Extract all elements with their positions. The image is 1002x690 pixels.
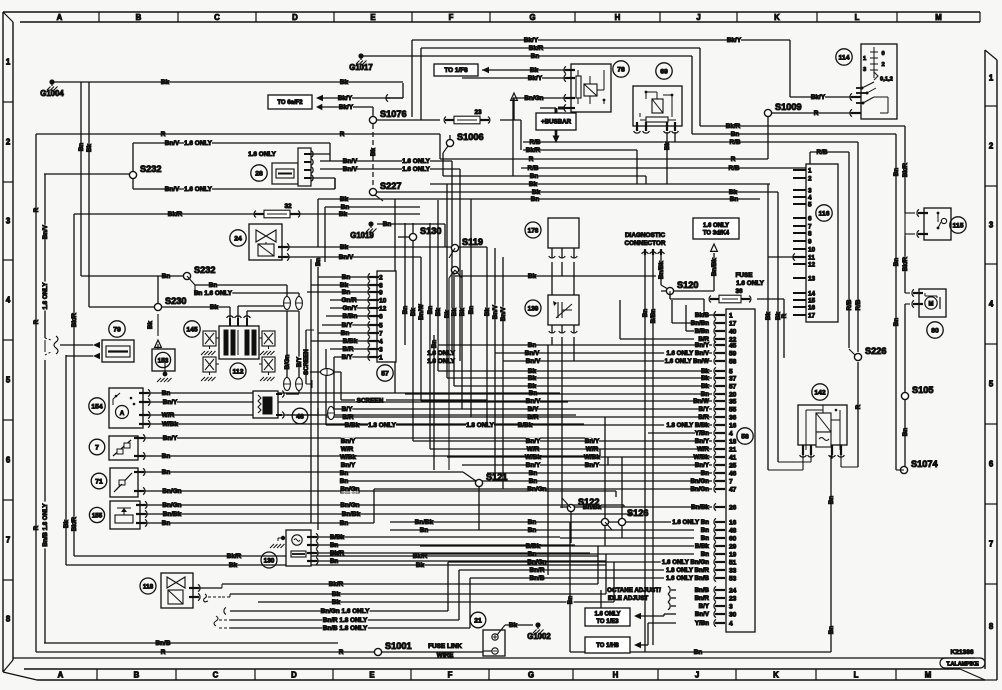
svg-text:Bk: Bk [528,383,537,390]
wire [44,360,46,643]
svg-text:R: R [161,131,166,138]
fuse 36 [709,296,711,303]
svg-text:13: 13 [808,275,816,282]
wire [645,176,647,184]
svg-text:139: 139 [528,305,539,312]
svg-text:Bn: Bn [315,258,322,266]
svg-text:Bk: Bk [86,143,93,151]
svg-text:Bn/Y: Bn/Y [695,342,710,349]
ground G1004 [49,79,54,84]
wire [671,300,673,323]
wire [148,392,560,394]
svg-text:Bn: Bn [162,390,171,397]
svg-text:Bk/R: Bk/R [329,581,344,588]
svg-text:W/Bk: W/Bk [525,454,541,461]
svg-text:Bn/V: Bn/V [42,224,49,239]
wire [604,417,606,518]
svg-text:Bn/V: Bn/V [343,166,358,173]
svg-text:Bk/R: Bk/R [413,553,428,560]
wire [88,82,90,307]
wire [340,480,712,482]
svg-text:7: 7 [6,536,10,545]
wire [36,133,440,135]
wire [647,623,649,645]
wire [620,338,694,340]
svg-text:Bn/B 1.8 ONLY: Bn/B 1.8 ONLY [42,503,49,547]
svg-text:B/Y: B/Y [342,354,353,361]
svg-text:Bn: Bn [828,496,835,504]
svg-text:Bk: Bk [332,591,341,598]
svg-text:B: B [136,13,142,22]
svg-text:6: 6 [379,313,383,320]
wire [133,188,335,190]
svg-text:Bk: Bk [530,67,539,74]
svg-text:1.6 ONLY: 1.6 ONLY [703,223,729,229]
wire [462,464,712,466]
wire [447,456,712,458]
wire [561,325,563,333]
wire [691,56,693,134]
svg-text:B/Y: B/Y [296,356,303,367]
svg-text:Bn: Bn [529,478,538,485]
wire [600,590,602,620]
wire [420,257,422,401]
svg-text:4: 4 [729,620,733,627]
svg-text:S119: S119 [462,237,483,247]
svg-text:OCTANE ADJUST/: OCTANE ADJUST/ [607,587,661,594]
svg-text:S226: S226 [865,346,886,356]
wire [661,290,714,292]
svg-text:+BUSBAR: +BUSBAR [541,119,572,126]
svg-text:Bk: Bk [509,622,518,629]
svg-text:46: 46 [729,470,737,477]
sensor U155 [110,501,140,529]
svg-text:C: C [213,671,219,680]
svg-text:1.6 ONLY: 1.6 ONLY [42,282,49,310]
throttle valve U24 [249,224,282,260]
svg-text:9: 9 [808,238,812,245]
svg-text:45: 45 [729,342,737,349]
wire [195,284,287,286]
battery U21 [470,612,486,628]
wire [482,69,565,71]
wire [340,372,342,400]
wire [44,174,46,338]
wire [809,152,811,168]
svg-text:K: K [774,13,780,22]
svg-text:17: 17 [729,320,737,327]
svg-text:8: 8 [808,230,812,237]
svg-text:Bn: Bn [701,391,709,398]
svg-text:Bn: Bn [694,649,703,656]
svg-text:Bk: Bk [410,307,417,315]
wire [305,330,307,384]
svg-text:1.6 ONLY: 1.6 ONLY [594,612,620,618]
svg-text:10: 10 [379,297,387,304]
svg-text:29: 29 [729,543,737,550]
left link symbols bottom rows [224,608,226,615]
svg-text:R: R [340,131,345,138]
wire [440,158,768,160]
svg-text:D: D [292,13,298,22]
svg-text:TO 1/E3: TO 1/E3 [596,619,619,625]
wire [377,119,440,121]
svg-text:130: 130 [264,557,275,564]
wire [317,267,319,530]
hook y98 [386,94,388,101]
svg-text:L: L [855,13,860,22]
wire [551,337,553,345]
svg-text:115: 115 [953,222,964,229]
wire [333,357,335,409]
wire [570,651,831,653]
svg-text:Bn: Bn [342,274,351,281]
svg-text:15: 15 [808,297,816,304]
svg-text:57: 57 [729,383,737,390]
svg-text:3: 3 [6,217,11,226]
svg-text:14: 14 [808,290,816,297]
svg-text:16: 16 [729,422,737,429]
wire [143,455,600,457]
wire [671,597,676,599]
svg-text:4: 4 [729,430,733,437]
wire 142 pin2 [810,455,812,462]
svg-text:16: 16 [808,304,816,311]
svg-text:Gn/Y: Gn/Y [343,305,359,312]
svg-text:Bn/V: Bn/V [492,304,499,319]
svg-text:12: 12 [379,305,387,312]
wire [412,39,790,41]
wire [230,619,459,621]
svg-text:Bk/R: Bk/R [726,123,741,130]
svg-text:Bk: Bk [528,375,537,382]
svg-text:R/B: R/B [728,165,739,172]
svg-text:153: 153 [158,357,169,364]
wire [298,293,300,306]
wire [430,183,770,185]
wire [230,627,470,629]
arrow to 3d/K4 [711,244,718,251]
wire [495,352,712,354]
svg-text:E: E [370,13,375,22]
wire [229,307,231,318]
svg-text:B/Bn: B/Bn [343,313,358,320]
wire [470,577,664,579]
svg-text:5: 5 [808,201,812,208]
oval B/Y [328,407,335,420]
svg-text:47: 47 [729,486,737,493]
wire [447,562,449,611]
svg-text:Bk: Bk [161,79,170,86]
svg-text:1.6 ONLY Bn/Gn: 1.6 ONLY Bn/Gn [662,559,709,566]
wire [311,340,370,342]
alternator U130 [286,530,311,566]
svg-text:Bn/R 1.8 ONLY: Bn/R 1.8 ONLY [323,617,368,624]
svg-text:TO 3d/K4: TO 3d/K4 [703,230,730,236]
wire S1076 to S227 [372,124,374,189]
svg-text:B/Y: B/Y [699,603,710,610]
svg-text:A: A [120,410,125,417]
svg-text:2: 2 [6,138,11,147]
svg-text:Bn: Bn [731,131,740,138]
svg-text:Bk/R: Bk/R [71,516,78,531]
svg-text:Bn: Bn [431,340,438,348]
svg-text:1.8 ONLY: 1.8 ONLY [368,422,397,429]
svg-text:Bn: Bn [893,258,900,266]
svg-text:1.6 ONLY Bn: 1.6 ONLY Bn [672,519,709,526]
svg-text:33: 33 [729,567,737,574]
svg-text:R/B: R/B [729,139,740,146]
svg-text:Bk: Bk [459,307,466,315]
wire [503,360,712,362]
svg-text:28: 28 [255,170,263,177]
svg-text:B/Y: B/Y [342,322,353,329]
svg-text:Bn: Bn [427,306,434,314]
wire [573,262,575,295]
svg-text:1.8 ONLY Bn/R: 1.8 ONLY Bn/R [666,567,710,574]
svg-text:145: 145 [186,326,198,333]
svg-text:FUSE LINK: FUSE LINK [428,643,462,650]
wire [605,554,607,594]
svg-text:Bn/V: Bn/V [526,398,541,405]
svg-text:57: 57 [381,370,389,377]
wire [405,393,712,395]
octane pin 606 [668,602,670,610]
svg-text:17: 17 [808,312,816,319]
wire 142 pin1 [802,455,804,470]
svg-text:Bn: Bn [893,318,900,326]
svg-text:DIAGNOSTIC: DIAGNOSTIC [625,232,666,239]
fuse 32 [254,211,256,218]
svg-text:Bn: Bn [528,519,537,526]
svg-text:Bn/Y: Bn/Y [341,462,356,469]
svg-text:S1076: S1076 [380,109,407,119]
module U153 [152,349,175,371]
svg-text:Y/Bn: Y/Bn [695,430,709,437]
svg-text:G1002: G1002 [527,632,551,641]
svg-text:C: C [214,13,220,22]
svg-text:Bn/Gn: Bn/Gn [527,486,546,493]
wire [454,385,712,387]
svg-text:Bn/Gn: Bn/Gn [690,486,709,493]
svg-text:55: 55 [729,406,737,413]
wire 142 pin3 [831,455,833,459]
svg-text:Bn: Bn [642,309,649,317]
wire [810,151,849,153]
svg-text:1: 1 [989,74,994,83]
svg-text:Bk/Y: Bk/Y [338,95,353,102]
svg-text:W/R: W/R [341,446,354,453]
svg-text:B/Bk: B/Bk [526,543,541,550]
svg-text:Bk/R: Bk/R [227,553,242,560]
svg-text:24: 24 [234,235,242,242]
wire [448,561,664,563]
svg-text:4: 4 [6,296,11,305]
wire [640,615,664,617]
svg-text:M: M [935,13,942,22]
wire [145,504,624,506]
wire [439,134,441,159]
svg-text:TO 1/F8: TO 1/F8 [444,67,468,74]
wire [330,307,370,309]
svg-text:2: 2 [989,142,994,151]
wire [36,651,374,653]
wire [830,455,832,652]
wire [286,285,288,306]
svg-text:Bn/Bk: Bn/Bk [658,261,665,279]
screen bracket [306,329,314,331]
wire [394,199,396,393]
svg-text:Bk/Y: Bk/Y [811,94,826,101]
svg-text:R: R [33,525,40,530]
ovals B wires [284,297,291,310]
svg-text:R/B: R/B [527,165,538,172]
svg-text:R/B: R/B [846,299,853,310]
wire [195,292,299,294]
wire [713,253,715,291]
wire [767,184,769,470]
svg-text:Bk/R: Bk/R [168,211,183,218]
wire [904,304,906,396]
wire [904,126,906,213]
wire [671,589,676,591]
svg-text:118: 118 [143,583,154,590]
svg-text:Bk: Bk [701,368,709,375]
wire [322,106,373,108]
wire [664,613,676,615]
wire [455,275,656,277]
wire [513,97,565,99]
junctions [369,116,376,123]
svg-text:B/Bn: B/Bn [650,309,657,324]
svg-text:B/Bn: B/Bn [695,328,710,335]
wire [674,132,676,142]
wire [512,98,514,176]
wire [573,325,575,333]
svg-text:R: R [731,156,736,163]
wire [73,214,75,556]
label L6 ONLY TO 1/E3 [585,608,630,626]
svg-text:Bk: Bk [210,304,219,311]
svg-text:Bn: Bn [701,551,709,558]
wire [505,624,533,626]
svg-text:21: 21 [474,617,482,624]
svg-text:Bn/Bk: Bn/Bk [342,511,361,518]
svg-text:7: 7 [95,444,99,451]
svg-text:1.6 ONLY: 1.6 ONLY [427,358,456,365]
svg-text:Bn/Bk: Bn/Bk [691,504,709,511]
wire [671,605,676,607]
svg-text:116: 116 [819,210,830,217]
wire [757,298,784,300]
svg-text:S230: S230 [165,296,186,306]
wire [547,345,549,575]
svg-text:1.8 ONLY: 1.8 ONLY [466,422,495,429]
wire [494,248,496,481]
svg-text:36: 36 [735,288,743,295]
wire [523,149,637,151]
svg-text:Bn/B: Bn/B [695,587,710,594]
svg-text:3: 3 [379,346,383,353]
wire [551,325,553,333]
svg-text:0,1,2: 0,1,2 [880,77,893,83]
svg-text:R: R [855,404,862,409]
svg-text:R: R [814,110,819,117]
wire [540,107,556,109]
wire [561,353,563,508]
48 wires [286,393,299,395]
svg-text:Bn/W: Bn/W [693,398,709,405]
svg-text:2: 2 [882,62,885,68]
svg-text:80: 80 [931,327,939,334]
svg-text:178: 178 [528,227,539,234]
frame grid border [3,11,980,13]
svg-text:Bn: Bn [530,173,539,180]
svg-text:S232: S232 [194,265,215,275]
wire [513,98,515,120]
svg-text:1.8 ONLY B/Bk: 1.8 ONLY B/Bk [666,422,709,429]
svg-text:Bn/B: Bn/B [530,575,545,582]
wire [307,291,370,293]
wire [660,255,662,285]
svg-text:B/Gn: B/Gn [284,354,291,369]
busbar output arrow [555,130,558,137]
wire [246,311,248,318]
svg-text:WIRE: WIRE [437,652,454,659]
svg-text:Bk: Bk [339,211,348,218]
wire [148,401,568,403]
module U178 [548,218,579,248]
wire [412,223,414,441]
wire [322,324,370,326]
sensor U139 [548,295,579,325]
svg-text:B/Bk: B/Bk [343,338,358,345]
wire [561,248,563,258]
wire [411,40,413,117]
svg-text:142: 142 [814,389,826,396]
wire [157,276,159,307]
svg-text:W/Bk: W/Bk [340,454,356,461]
svg-text:M: M [929,302,934,308]
svg-text:Bn/Y: Bn/Y [341,438,356,445]
wire [451,161,453,353]
svg-text:Bk: Bk [529,181,538,188]
wire [143,471,463,473]
svg-text:Bn: Bn [340,478,349,485]
wire [520,120,522,150]
svg-text:4: 4 [808,194,812,201]
svg-text:R: R [529,156,534,163]
svg-text:Bn/B 1.8 ONLY: Bn/B 1.8 ONLY [323,625,368,632]
svg-text:Bk: Bk [147,320,154,328]
svg-text:Y/Bn: Y/Bn [695,620,709,627]
wire [318,198,760,200]
wire [789,40,791,97]
svg-text:Bk: Bk [451,307,458,315]
vert to 153 [157,314,159,336]
svg-text:Bk: Bk [435,307,442,315]
svg-text:Bk/R: Bk/R [902,162,909,177]
svg-text:G1019: G1019 [350,231,374,240]
svg-text:Bn/B: Bn/B [156,640,171,647]
svg-text:51: 51 [729,559,737,566]
svg-text:F: F [448,671,453,680]
svg-text:Bn/Gn: Bn/Gn [162,502,181,509]
svg-text:Bn/V: Bn/V [695,611,710,618]
svg-text:1: 1 [808,167,812,174]
svg-text:Bn: Bn [420,527,429,534]
svg-text:B/Y: B/Y [699,406,710,413]
